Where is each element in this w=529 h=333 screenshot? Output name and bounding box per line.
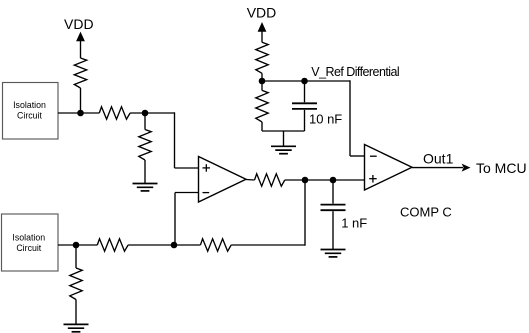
Isolation Circuit block (bottom) <box>2 214 59 271</box>
resistor R8 (reference divider top) <box>256 42 268 73</box>
node F (junction dot, filter tap) <box>330 177 337 184</box>
wire R2 to corner above op-amp <box>130 112 198 168</box>
wire box1 output to R2 <box>58 112 99 114</box>
resistor R3 (to ground from node B) <box>139 130 151 161</box>
resistor R9 (reference divider bottom) <box>256 90 268 122</box>
resistor R5 (to ground from node C) <box>70 268 82 300</box>
svg-text:VDD: VDD <box>247 4 277 20</box>
net label V_Ref Differential <box>311 65 399 79</box>
net label Out1 <box>423 150 454 166</box>
wire Out1 with arrow to MCU <box>412 164 471 172</box>
svg-text:Isolation: Isolation <box>12 232 45 242</box>
wire R5 to ground <box>75 300 77 325</box>
svg-text:COMP C: COMP C <box>400 204 452 219</box>
Isolation Circuit block (top) <box>3 83 59 140</box>
resistor R4 (series, bottom channel) <box>97 239 128 251</box>
resistor R2 (series, top channel) <box>99 107 130 119</box>
label 10 nF <box>309 112 342 127</box>
wire V_Ref rail <box>262 80 365 156</box>
svg-text:Circuit: Circuit <box>17 111 42 121</box>
svg-text:Circuit: Circuit <box>16 243 41 253</box>
wire U1 output to R7 <box>246 179 255 182</box>
wire node B down to R3 <box>144 113 146 130</box>
wire node C down to R5 <box>75 245 77 268</box>
wire R4 to node D <box>128 244 200 246</box>
ground (below R3) <box>133 184 158 191</box>
resistor R6 (feedback) <box>200 239 231 251</box>
node C (junction dot, bottom input rail) <box>73 242 80 249</box>
label 1 nF <box>341 215 367 230</box>
svg-text:V_Ref Differential: V_Ref Differential <box>311 65 399 79</box>
node B (junction dot at divider tap) <box>142 110 149 117</box>
capacitor C1 10 nF <box>292 81 317 131</box>
power flag VDD (reference) <box>247 4 277 42</box>
wire R1 bottom to node A <box>80 88 82 113</box>
resistor R1 (pull-up to VDD, top channel) <box>74 58 86 88</box>
op-amp U1 (difference amplifier) <box>199 157 247 203</box>
wire R3 to ground <box>144 160 146 184</box>
wire R9 to ground rail <box>262 122 305 131</box>
svg-text:1 nF: 1 nF <box>341 215 367 230</box>
svg-text:10 nF: 10 nF <box>309 112 342 127</box>
wire R6 to node E riser <box>231 180 305 246</box>
node A (junction dot, top input rail) <box>77 110 84 117</box>
svg-text:To MCU: To MCU <box>476 160 527 176</box>
label COMP C <box>400 204 452 219</box>
op-amp U2 comparator COMP C <box>365 145 413 191</box>
wire R8 to node G <box>261 73 263 90</box>
ground (below R5) <box>64 324 89 331</box>
node E (junction dot, feedback tap) <box>302 177 309 184</box>
resistor R7 (series to comparator) <box>255 174 285 186</box>
label To MCU <box>476 160 527 176</box>
ground (reference divider) <box>271 131 296 154</box>
node H (junction dot at C1) <box>301 78 308 85</box>
svg-text:Out1: Out1 <box>423 150 454 166</box>
svg-text:Isolation: Isolation <box>13 100 46 110</box>
power flag VDD (left) <box>64 16 94 58</box>
node D (junction dot at inverting input leg) <box>171 242 178 249</box>
node G (junction dot, V_Ref) <box>259 78 266 85</box>
wire R7 to comparator non-inverting input <box>285 179 365 181</box>
wire box2 output to R4 <box>58 244 97 246</box>
ground (below C2) <box>321 250 346 257</box>
capacitor C2 1 nF <box>321 180 346 250</box>
wire U1 inverting input to feedback node <box>175 193 199 246</box>
svg-text:VDD: VDD <box>64 16 94 32</box>
